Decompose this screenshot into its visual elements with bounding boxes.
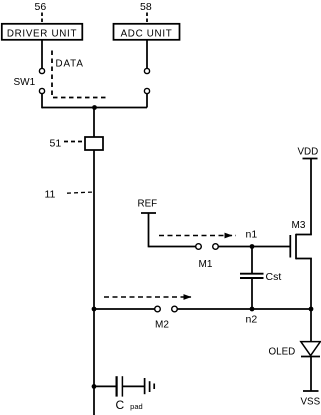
label M2 bbox=[155, 320, 169, 331]
label M1 bbox=[199, 259, 213, 270]
label Cst bbox=[266, 271, 282, 283]
label SW1 bbox=[14, 77, 36, 88]
label M3 bbox=[292, 220, 306, 231]
wire to Cpad bbox=[94, 385, 116, 387]
svg-text:58: 58 bbox=[140, 1, 152, 13]
leader from 58 to adc unit bbox=[146, 13, 148, 23]
wire n2 bus left bbox=[94, 308, 155, 310]
label 56 bbox=[35, 1, 47, 13]
leader 51 to switch box bbox=[64, 141, 84, 143]
ground (chassis) bbox=[145, 378, 155, 394]
wire Cpad to ground bbox=[123, 385, 144, 387]
svg-text:M3: M3 bbox=[292, 220, 306, 231]
svg-text:OLED: OLED bbox=[269, 347, 296, 358]
wire adc-unit output bbox=[146, 40, 148, 69]
wire n2 bus right bbox=[177, 308, 311, 310]
wire M1 to gate of M3 bbox=[218, 246, 290, 248]
switch SW1 bbox=[39, 68, 44, 93]
driver unit box 56 bbox=[2, 24, 83, 40]
junction sensing line / n2 bus bbox=[92, 307, 97, 312]
svg-text:51: 51 bbox=[50, 138, 62, 150]
wire OLED to VSS bbox=[310, 357, 312, 392]
label REF bbox=[138, 199, 158, 210]
capacitor Cpad bbox=[117, 376, 123, 396]
svg-text:Cpad: Cpad bbox=[116, 398, 143, 412]
svg-text:DRIVER UNIT: DRIVER UNIT bbox=[7, 29, 77, 40]
sensing arrow over M2 (dashed) bbox=[104, 294, 192, 300]
wire REF to M1 bbox=[149, 246, 196, 248]
REF terminal bbox=[141, 213, 156, 247]
label VDD bbox=[298, 147, 319, 158]
switch SW2 (adc branch) bbox=[144, 68, 149, 93]
svg-text:SW1: SW1 bbox=[14, 77, 36, 88]
svg-text:REF: REF bbox=[138, 199, 158, 210]
wire n2 to OLED bbox=[310, 309, 312, 342]
wire Cst to n2 bbox=[251, 278, 253, 309]
label Cpad bbox=[116, 398, 143, 412]
label VSS bbox=[301, 397, 321, 408]
diode OLED bbox=[301, 342, 321, 357]
transistor M3 bbox=[290, 234, 311, 259]
wire n1 to Cst bbox=[251, 247, 253, 274]
label 51 bbox=[50, 138, 62, 150]
label n1 bbox=[246, 229, 258, 241]
junction sensing line / Cpad tap bbox=[92, 384, 97, 389]
sampling arrow over M1 (dashed) bbox=[159, 233, 236, 239]
junction M3 source / n2 bus bbox=[309, 307, 314, 312]
svg-text:n2: n2 bbox=[246, 314, 258, 326]
switch M1 bbox=[196, 244, 219, 250]
svg-text:VSS: VSS bbox=[301, 397, 321, 408]
svg-text:11: 11 bbox=[45, 189, 56, 201]
junction on top bus bbox=[92, 105, 97, 110]
VSS terminal bbox=[303, 390, 319, 392]
leader 11 to sensing line bbox=[67, 192, 94, 193]
wire top bus horizontal bbox=[42, 107, 147, 109]
svg-text:DATA: DATA bbox=[56, 59, 84, 70]
label n2 bbox=[246, 314, 258, 326]
wire adc switch to bus bbox=[146, 94, 148, 108]
label OLED bbox=[269, 347, 296, 358]
switch M2 bbox=[155, 306, 178, 312]
wire driver-unit output bbox=[41, 40, 43, 69]
node n1 bbox=[250, 244, 255, 249]
svg-text:M2: M2 bbox=[155, 320, 169, 331]
data line (dashed) bbox=[52, 51, 106, 98]
svg-text:M1: M1 bbox=[199, 259, 213, 270]
VDD terminal bbox=[303, 158, 318, 160]
label 11 bbox=[45, 189, 56, 201]
node n2 bbox=[250, 307, 255, 312]
svg-text:ADC UNIT: ADC UNIT bbox=[121, 29, 173, 40]
wire SW1 to bus bbox=[41, 94, 43, 109]
svg-text:VDD: VDD bbox=[298, 147, 319, 158]
capacitor Cst bbox=[240, 274, 264, 278]
label 58 bbox=[140, 1, 152, 13]
wire sensing line (vertical) bbox=[93, 108, 95, 415]
switch box 51 bbox=[85, 137, 103, 150]
label DATA bbox=[56, 59, 84, 70]
svg-text:n1: n1 bbox=[246, 229, 258, 241]
adc unit box 58 bbox=[114, 24, 180, 40]
svg-text:Cst: Cst bbox=[266, 271, 282, 283]
wire M3 drain to VDD bbox=[310, 159, 312, 235]
wire M3 source to n2 bus bbox=[310, 259, 312, 310]
svg-text:56: 56 bbox=[35, 1, 47, 13]
leader from 56 to driver unit bbox=[41, 13, 43, 23]
